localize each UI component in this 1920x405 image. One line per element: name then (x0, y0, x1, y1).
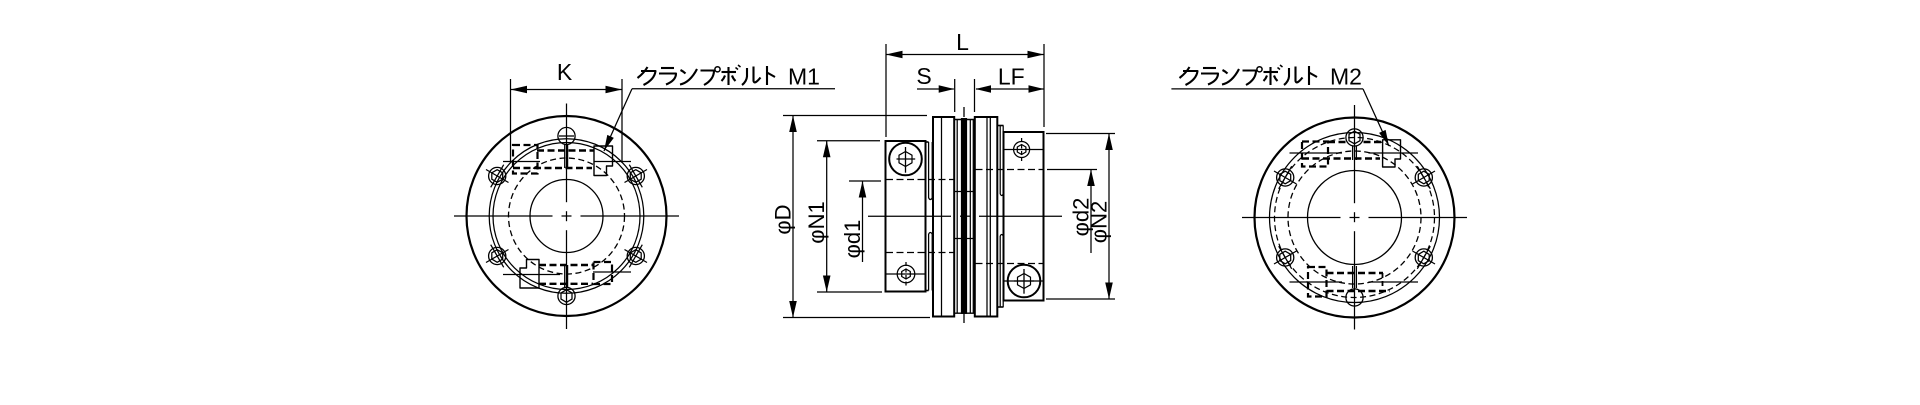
svg-text:L: L (956, 29, 969, 55)
svg-text:φD: φD (770, 204, 795, 234)
svg-text:φN2: φN2 (1086, 201, 1111, 243)
svg-text:K: K (557, 59, 573, 85)
svg-text:M1: M1 (788, 64, 820, 90)
svg-text:M2: M2 (1330, 64, 1362, 90)
svg-text:φN1: φN1 (804, 201, 829, 243)
svg-text:S: S (916, 63, 931, 89)
svg-text:φd1: φd1 (840, 220, 865, 259)
svg-text:LF: LF (998, 64, 1025, 90)
